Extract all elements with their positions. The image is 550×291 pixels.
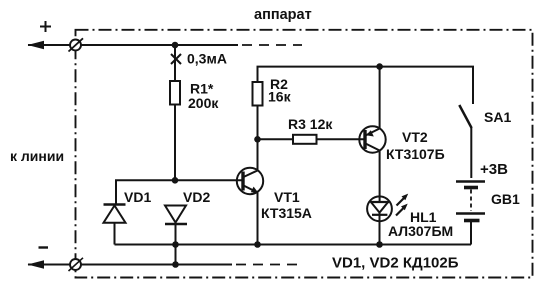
wire VT1 emitter down [257,193,259,245]
transistor VT2 [359,126,385,152]
wire diode top rail (VD1 to VT1 base) [116,180,243,204]
minus polarity mark [39,246,49,248]
node C junction VD2 bottom [172,241,179,248]
svg-text:VD1, VD2 КД102Б: VD1, VD2 КД102Б [332,255,459,272]
wire VT1 collector [257,139,259,170]
svg-text:GB1: GB1 [491,191,520,207]
switch SA1 [459,105,471,178]
svg-text:16к: 16к [268,89,292,105]
wire top rail to line [28,44,238,46]
wire VT2 emitter feed down [379,67,381,129]
svg-text:0,3мА: 0,3мА [187,51,227,67]
svg-text:КТ315А: КТ315А [261,205,312,221]
resistor R1 [170,81,180,105]
svg-text:200к: 200к [188,95,219,111]
node G junction VT2 emitter feed [376,63,383,70]
LED light arrows [396,194,408,216]
battery GB1 [456,182,485,245]
node D junction VT1 emitter bottom [254,241,261,248]
svg-text:VD2: VD2 [183,189,210,205]
svg-text:к линии: к линии [10,148,64,164]
LED HL1 [367,196,392,244]
wire bottom rail to line [28,264,232,266]
node H junction R2 R3 VT1 collector [254,136,261,143]
wire R2 bottom to node [257,106,259,140]
current break mark 0,3mA [171,54,181,64]
svg-text:VD1: VD1 [124,189,151,205]
terminal X2 [69,258,84,271]
svg-text:АЛ307БМ: АЛ307БМ [388,223,453,239]
arrow to line bottom [28,260,45,268]
diode VD1 [104,205,126,245]
diode VD2 [165,206,187,245]
svg-text:VT1: VT1 [274,189,300,205]
wire VD2 node to lower rail [175,245,177,265]
wire top feed rail [258,67,474,104]
wire bottom collector rail [115,244,472,246]
node F junction lower rail [172,261,179,268]
node B junction diodes [172,177,179,184]
resistor R2 [253,82,263,106]
svg-text:R3 12к: R3 12к [288,116,333,132]
terminal X1 [69,38,84,51]
resistor R3 [293,135,317,144]
wire junction to R1 [174,45,176,81]
arrow to line top [28,41,45,49]
svg-text:SA1: SA1 [484,109,511,125]
apparatus enclosure border [76,30,533,278]
wire VT2 collector to HL1 [379,151,381,203]
wire R3 to VT2 base [317,138,365,140]
svg-text:КТ3107Б: КТ3107Б [386,146,445,162]
transistor VT1 [237,168,263,194]
wire bottom rail dashed continuation [236,264,298,266]
node A junction top rail R1 [172,42,179,49]
wire R1 to diode node [174,105,176,181]
svg-text:+3В: +3В [480,161,508,178]
wire node to R3 [258,138,294,140]
svg-text:аппарат: аппарат [254,7,312,23]
node E junction HL1 bottom [376,241,383,248]
plus polarity mark [40,21,51,32]
svg-text:VT2: VT2 [402,129,428,145]
wire top rail dashed continuation [242,44,302,46]
